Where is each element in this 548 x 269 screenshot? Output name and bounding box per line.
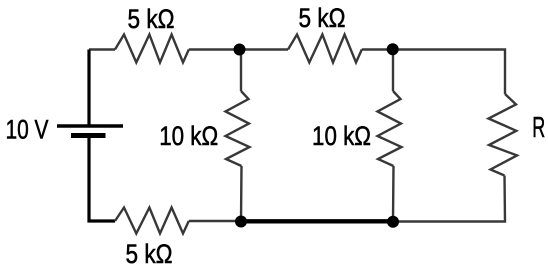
resistor R right vertical zigzag [489,94,518,176]
node B junction dot [387,43,399,55]
svg-text:5 kΩ: 5 kΩ [128,4,175,34]
wire: bottom rail zigzag to node [189,220,241,222]
wire: top rail left segment [89,48,115,50]
node bottom-left junction dot [235,216,247,228]
wire: left vertical resistor to bottom node [240,166,243,221]
wire: node A down to vertical resistor [240,50,242,92]
svg-text:5 kΩ: 5 kΩ [126,239,173,269]
svg-text:10 kΩ: 10 kΩ [159,121,218,151]
svg-text:10 kΩ: 10 kΩ [312,121,371,151]
wire: top rail between zigzag and node A [189,48,240,50]
node A junction dot [234,44,246,56]
battery V1 lead bottom [89,136,115,222]
svg-text:R: R [532,112,545,144]
resistor 5 kΩ top-left zigzag [115,35,189,63]
resistor 10 kΩ right vertical zigzag [378,91,402,166]
battery V1 long plate [57,124,123,128]
wire: top rail node B to right corner and down [393,50,505,95]
wire: top rail node A to second zigzag [240,48,288,50]
wire: bold bottom middle segment [241,219,393,223]
resistor 10 kΩ left vertical zigzag [226,91,250,166]
battery V1 short plate [71,133,106,138]
svg-text:5 kΩ: 5 kΩ [299,3,346,33]
wire: top rail second zigzag to node B [362,48,393,50]
battery V1 lead top [87,50,90,127]
wire: right vertical resistor to bottom node [392,166,395,221]
resistor 5 kΩ bottom zigzag [115,208,189,234]
wire: node B down to vertical resistor [392,50,394,92]
wire: R resistor to bottom right corner [393,176,505,222]
svg-text:10 V: 10 V [6,115,49,145]
node bottom-right junction dot [387,216,399,228]
resistor 5 kΩ top-right zigzag [288,35,362,63]
